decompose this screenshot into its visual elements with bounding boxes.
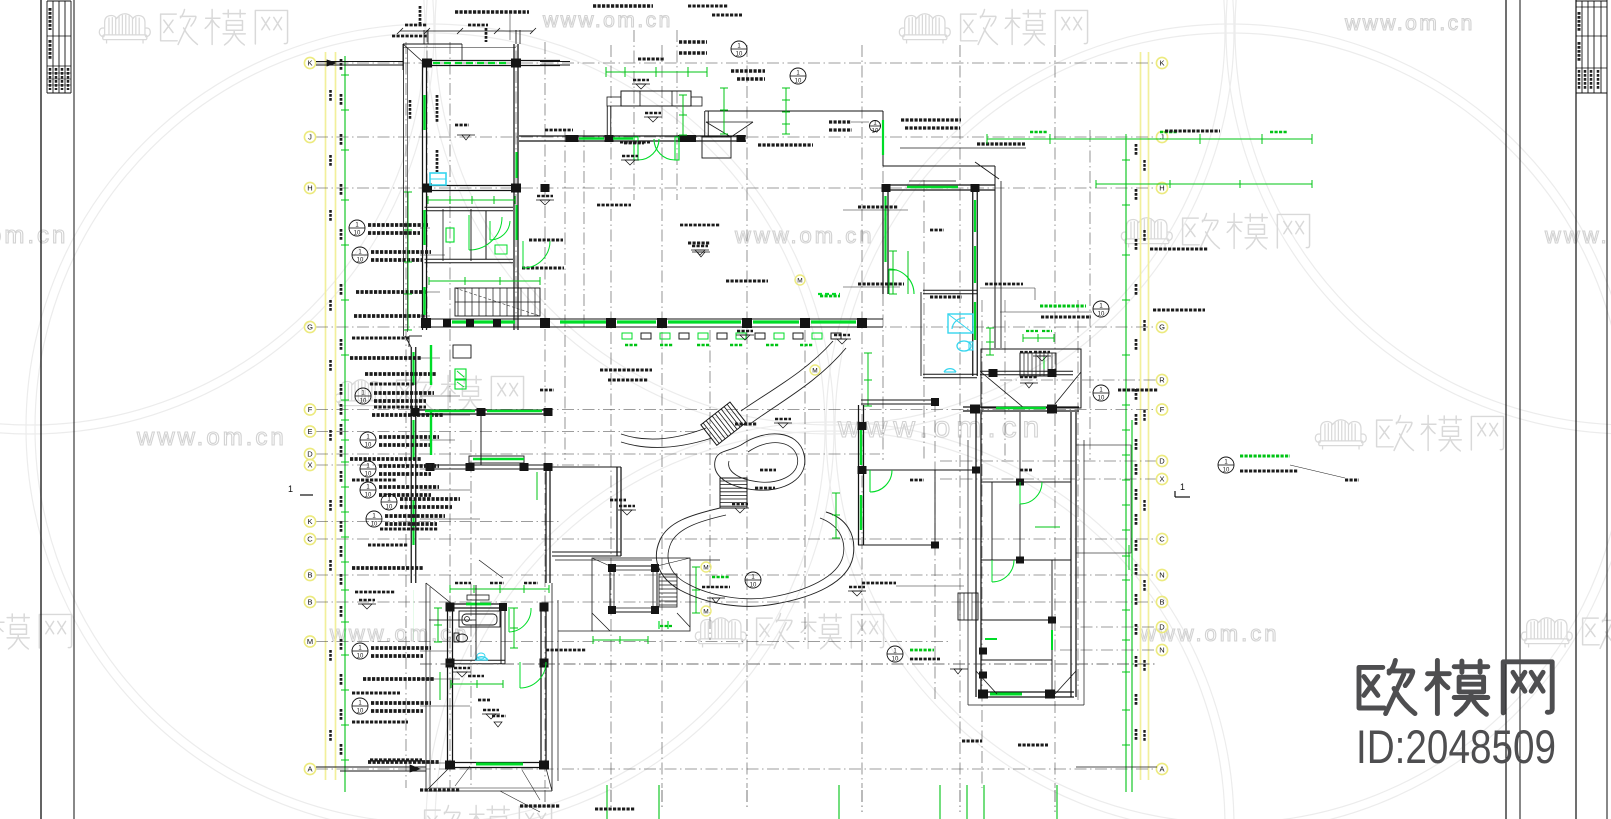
- bottom-left extra walls: [475, 585, 477, 660]
- bottom annotations: [370, 758, 422, 761]
- svg-text:D: D: [1159, 623, 1165, 632]
- wing right wall / block left wall: [513, 44, 515, 330]
- leader PVC right: [900, 147, 1026, 149]
- right porch green dims: [989, 328, 991, 355]
- svg-text:J: J: [1160, 133, 1164, 142]
- mid room green dim: [695, 567, 697, 613]
- wall y373 right porch: [980, 370, 1073, 372]
- svg-text:ID:2048509: ID:2048509: [1356, 720, 1556, 773]
- svg-text:B: B: [307, 598, 312, 607]
- svg-text:10: 10: [1098, 312, 1105, 318]
- green dash row right-mid: [818, 293, 840, 295]
- terrace edge line bottom: [555, 559, 652, 561]
- wing vertical dim text: [436, 95, 439, 123]
- right block door arcs: [1019, 482, 1021, 504]
- svg-text:C: C: [1159, 535, 1165, 544]
- svg-text:F: F: [308, 405, 313, 414]
- bath2 bottom wall: [447, 659, 505, 661]
- channel left: [621, 428, 706, 439]
- svg-text:10: 10: [872, 129, 879, 135]
- svg-text:R: R: [1159, 376, 1165, 385]
- svg-text:C: C: [307, 535, 313, 544]
- green segments center block left wall: [515, 152, 517, 178]
- long green dim top right: [987, 138, 1312, 140]
- level marks: [636, 84, 646, 89]
- leader from bedroom to text: [500, 791, 540, 812]
- svg-text:M: M: [703, 609, 708, 616]
- top right small text: [1165, 130, 1220, 133]
- cyan fixture top-left: [430, 173, 446, 185]
- bedroom door arc: [519, 662, 521, 688]
- wing2 green dims: [450, 588, 549, 590]
- entry side walls: [606, 106, 608, 136]
- K axis double line left stub + marker: [316, 61, 403, 63]
- center-bottom room: [550, 466, 621, 468]
- stair porch right: [981, 349, 1081, 408]
- svg-text:www.: www.: [1544, 223, 1610, 248]
- window schedule marks: [622, 333, 632, 339]
- wing room labels: [455, 124, 469, 127]
- svg-text:www.om.cn: www.om.cn: [837, 411, 1045, 444]
- extra dash axis y664: [420, 663, 1157, 665]
- wing left wall: [422, 63, 424, 330]
- green dims misc: [785, 88, 787, 134]
- horizontal axes dash-dot: [316, 62, 1157, 64]
- top annotations: [455, 10, 529, 14]
- svg-text:M: M: [812, 368, 817, 375]
- center-left door arc: [522, 241, 524, 268]
- right wing right wall: [972, 190, 974, 376]
- extra left texts: [355, 591, 395, 594]
- extra top center green vdim: [682, 95, 684, 135]
- sheet border right: [1505, 0, 1507, 819]
- bottom-left wing left wall below G: [410, 347, 412, 583]
- block outer porch outline: [967, 440, 969, 705]
- top annotation cluster marks: [392, 35, 428, 38]
- small mid room terrace: [592, 558, 690, 631]
- pond lower blob: [656, 508, 853, 606]
- svg-text:E: E: [307, 427, 312, 436]
- svg-text:H: H: [1159, 184, 1164, 193]
- pond channel upper: [741, 341, 833, 411]
- entry green dim: [606, 71, 707, 73]
- svg-text:D: D: [1159, 457, 1165, 466]
- notch left of block: [958, 593, 978, 620]
- svg-text:om.cn: om.cn: [0, 222, 68, 249]
- svg-text:10: 10: [386, 505, 393, 511]
- right mid annotations: [1093, 301, 1109, 317]
- svg-text:M: M: [797, 278, 802, 285]
- center annotations: [858, 282, 904, 285]
- A axis left double stub: [316, 766, 426, 768]
- bottom-right block: [975, 412, 977, 697]
- right of entry: porch: [705, 110, 883, 112]
- wing bathroom green fixtures: [469, 217, 502, 250]
- svg-text:M: M: [703, 565, 708, 572]
- svg-text:G: G: [307, 323, 313, 332]
- bottom edge texts: [595, 808, 635, 811]
- svg-text:A: A: [1159, 765, 1164, 774]
- mid-right wall y400: [861, 399, 935, 401]
- svg-text:www.om.cn: www.om.cn: [734, 223, 874, 248]
- right wing door arc: [888, 269, 890, 294]
- H wall right wing: [883, 184, 995, 186]
- svg-text:10: 10: [354, 231, 361, 237]
- watermark rings: [26, 24, 834, 819]
- svg-text:K: K: [307, 517, 312, 526]
- leader lines left: [420, 227, 430, 229]
- green dim y184 right: [1096, 183, 1312, 185]
- small mid room: [610, 566, 657, 612]
- svg-text:10: 10: [357, 258, 364, 264]
- bath2 right wall: [500, 604, 502, 664]
- cyan shower: [948, 314, 973, 333]
- inner tick text col x330: [329, 90, 332, 102]
- top dimension line over wing: [400, 30, 533, 32]
- bath2 top wall: [447, 603, 505, 605]
- svg-text:10: 10: [365, 493, 372, 499]
- wing2 left wall: [447, 606, 449, 768]
- vertical axes dash-dot: [405, 42, 407, 788]
- svg-text:www.om.cn: www.om.cn: [329, 621, 469, 646]
- svg-text:10: 10: [357, 709, 364, 715]
- svg-text:B: B: [1159, 598, 1164, 607]
- svg-text:A: A: [307, 765, 312, 774]
- A axis right stub: [1076, 766, 1157, 768]
- wing interior wall x471: [470, 209, 472, 261]
- svg-text:10: 10: [892, 657, 899, 663]
- svg-text:B: B: [307, 571, 312, 580]
- bedroom right wall: [540, 606, 542, 768]
- svg-text:X: X: [307, 461, 312, 470]
- more columns G/K walls: [466, 319, 474, 328]
- axis bubbles right: [1156, 57, 1167, 68]
- pvc text right: [985, 283, 1023, 286]
- bedroom level mark: [494, 722, 502, 727]
- cyan sink: [944, 369, 956, 372]
- svg-text:1: 1: [1180, 482, 1185, 492]
- toilet2: [457, 634, 468, 642]
- yellow axis verticals: [325, 52, 327, 780]
- column mid-right wall: [858, 422, 867, 430]
- entry canopy: [621, 91, 691, 106]
- F axis kitchen wall: [413, 409, 550, 411]
- svg-text:www.om.cn: www.om.cn: [1344, 12, 1475, 35]
- left title table: [46, 1, 48, 93]
- mid-right rooms: [866, 469, 976, 471]
- section marker 1 left: [300, 494, 313, 496]
- green on mid-left walls: [430, 345, 432, 385]
- svg-text:G: G: [1159, 323, 1165, 332]
- svg-text:10: 10: [1098, 396, 1105, 402]
- svg-text:F: F: [1160, 405, 1165, 414]
- bathtub: [462, 614, 497, 625]
- H axis wall: [422, 185, 519, 187]
- svg-text:K: K: [1159, 59, 1164, 68]
- right terrace outline: [1076, 445, 1131, 553]
- bedroom bottom wall: [447, 762, 546, 764]
- short green stubs below A: [606, 785, 608, 819]
- green dim rows wing: [428, 199, 515, 201]
- step corner at G: [409, 335, 422, 337]
- green dimension verticals: [344, 56, 346, 792]
- sheet border left: [40, 0, 42, 819]
- small stair hatch: [659, 574, 677, 607]
- G axis wall center: [519, 318, 883, 320]
- kitchen appliances: [453, 345, 471, 358]
- mid-left room: [430, 464, 551, 466]
- top-left wing outline: [403, 43, 462, 45]
- K axis right stub double: [540, 61, 570, 63]
- svg-text:10: 10: [750, 583, 757, 589]
- svg-text:M: M: [307, 637, 313, 646]
- right wing left wall: [882, 190, 884, 294]
- svg-text:10: 10: [736, 52, 743, 58]
- green vdim x408: [407, 192, 409, 330]
- svg-text:10: 10: [371, 522, 378, 528]
- svg-text:K: K: [307, 59, 312, 68]
- svg-text:D: D: [307, 450, 313, 459]
- center block right boundary: [882, 111, 884, 166]
- axis bubbles left: [304, 57, 315, 68]
- right title table: [1581, 1, 1583, 93]
- pond oval loop: [715, 434, 805, 490]
- mid-right left wall: [858, 405, 860, 545]
- section marker 1 right: [1175, 496, 1190, 498]
- green segments left wall wing: [423, 210, 425, 245]
- cyan toilet: [957, 341, 971, 351]
- svg-text:10: 10: [795, 79, 802, 85]
- left margin annotations: [349, 220, 365, 236]
- porch bottom-left: [425, 583, 427, 791]
- right wing bathroom: [923, 289, 977, 291]
- svg-text:1: 1: [288, 484, 293, 494]
- bottom right logo: [1359, 660, 1552, 714]
- svg-text:www.om.cn: www.om.cn: [542, 9, 673, 32]
- stairs: [455, 288, 540, 316]
- wing eave lines: [403, 44, 405, 336]
- cyan sink2: [475, 657, 488, 660]
- mid annotations round3: [712, 576, 730, 578]
- svg-text:10: 10: [357, 654, 364, 660]
- svg-text:N: N: [1159, 646, 1164, 655]
- svg-text:10: 10: [1223, 468, 1230, 474]
- mid-left terrace top: [469, 456, 524, 463]
- wing G wall: [422, 318, 519, 320]
- svg-text:X: X: [1159, 475, 1164, 484]
- svg-text:J: J: [308, 133, 312, 142]
- top center black text rows: [688, 5, 728, 8]
- center room label: [688, 242, 710, 245]
- stair hatch: [1019, 353, 1021, 376]
- svg-text:10: 10: [365, 443, 372, 449]
- door arc bath2hall: [508, 607, 510, 632]
- bridge2: [720, 478, 747, 508]
- svg-text:www.om.cn: www.om.cn: [136, 424, 287, 451]
- yellow door tags: [701, 562, 711, 572]
- left margin extra rows: [352, 337, 410, 340]
- porch line south of bedroom right: [557, 600, 559, 781]
- K axis wall top-left wing: [422, 60, 560, 62]
- green labels under schedule: [625, 344, 638, 346]
- entry doors green: [634, 137, 638, 160]
- block interior: [981, 481, 1071, 483]
- center block top wall: [519, 135, 746, 137]
- watermark sofa+logo units: [99, 14, 150, 44]
- svg-text:10: 10: [365, 472, 372, 478]
- svg-text:H: H: [307, 184, 312, 193]
- svg-text:10: 10: [360, 399, 367, 405]
- wing bathroom walls: [425, 206, 514, 208]
- green dashed window on K wall: [433, 62, 510, 64]
- bridge1 rotated: [701, 402, 746, 445]
- svg-text:N: N: [1159, 571, 1164, 580]
- F wall right: [963, 406, 1079, 408]
